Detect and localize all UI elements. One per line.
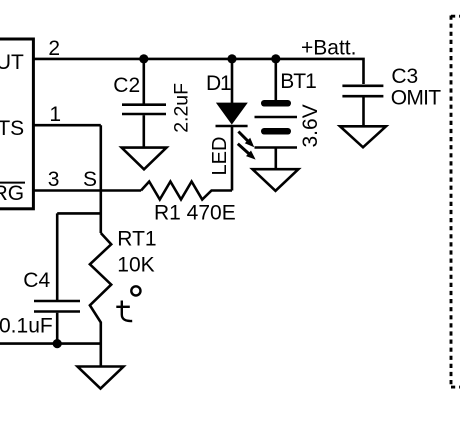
svg-text:C2: C2	[113, 74, 140, 97]
svg-text:+Batt.: +Batt.	[301, 37, 356, 60]
svg-text:1: 1	[49, 103, 61, 126]
svg-text:UT: UT	[0, 51, 24, 74]
svg-text:C4: C4	[23, 269, 50, 292]
svg-text:C3: C3	[391, 65, 418, 88]
svg-text:0.1uF: 0.1uF	[0, 315, 53, 338]
svg-text:2.2uF: 2.2uF	[170, 83, 192, 133]
svg-text:RG: RG	[0, 182, 24, 205]
svg-text:TS: TS	[0, 117, 24, 140]
svg-text:R1 470E: R1 470E	[154, 202, 236, 225]
svg-text:BT1: BT1	[280, 70, 316, 93]
svg-text:10K: 10K	[117, 253, 154, 276]
svg-text:3.6V: 3.6V	[299, 104, 322, 147]
svg-text:D1: D1	[206, 72, 231, 95]
svg-text:LED: LED	[209, 137, 231, 176]
svg-text:RT1: RT1	[117, 227, 156, 250]
svg-text:OMIT: OMIT	[391, 86, 442, 109]
svg-text:S: S	[83, 168, 97, 191]
svg-text:3: 3	[48, 168, 60, 191]
svg-text:2: 2	[48, 37, 60, 60]
